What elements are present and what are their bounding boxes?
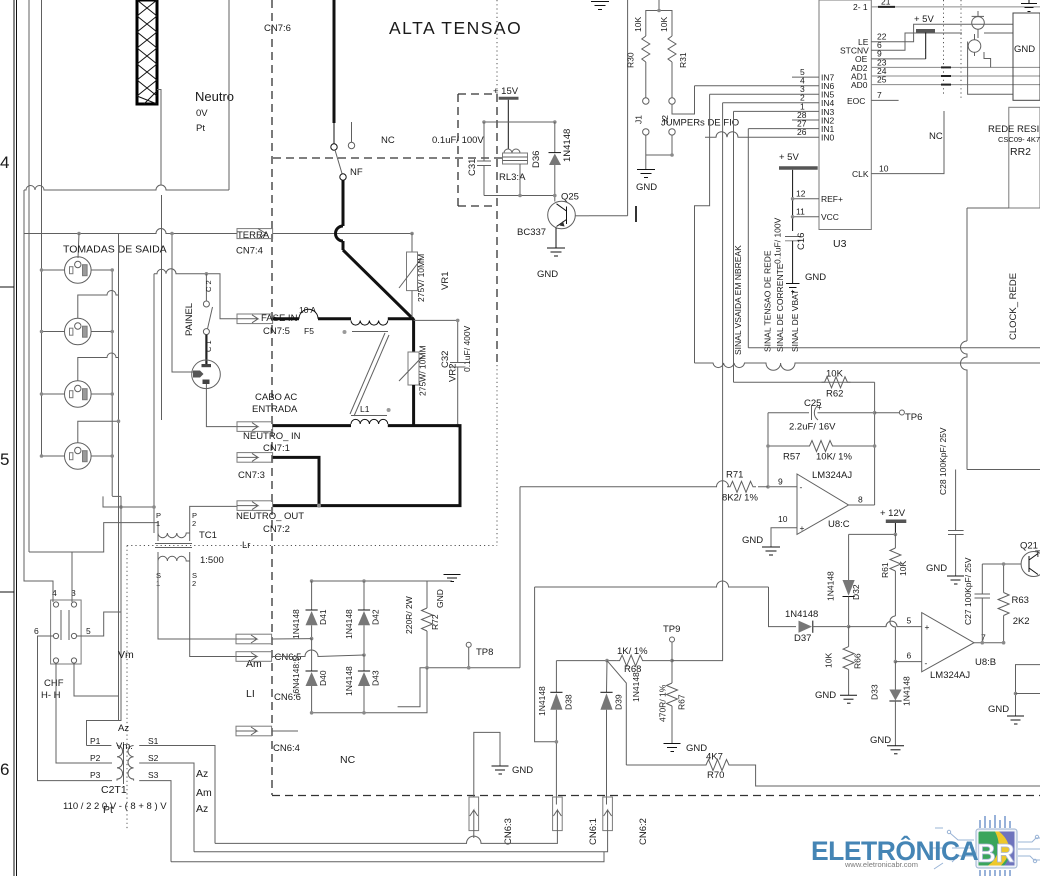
wire y587 corner down to D37: [535, 587, 557, 742]
svg-text:CN6:4: CN6:4: [273, 743, 300, 754]
svg-text:SINAL DE CORRENTE: SINAL DE CORRENTE: [775, 263, 785, 352]
svg-text:10K/ 1%: 10K/ 1%: [816, 452, 852, 463]
svg-text:275V/ 10MM: 275V/ 10MM: [416, 254, 426, 302]
svg-text:C2T1: C2T1: [101, 784, 127, 796]
svg-text:8K2/ 1%: 8K2/ 1%: [722, 493, 758, 504]
wire pin9 input: [768, 486, 797, 488]
svg-text:5: 5: [0, 450, 9, 469]
junction dot pin6: [894, 660, 898, 664]
junction dot relay top right: [553, 120, 557, 124]
svg-text:Pt: Pt: [103, 804, 113, 816]
svg-text:CN7:2: CN7:2: [263, 524, 290, 535]
relay coil bottom wire: [519, 164, 521, 196]
fuse F5: [299, 309, 318, 319]
svg-text:NEUTRO_ IN: NEUTRO_ IN: [243, 431, 301, 442]
wire J2 bottom to gnd: [646, 135, 672, 155]
svg-text:TERRA: TERRA: [237, 230, 270, 241]
relay RL3:A coil: [503, 149, 528, 164]
junction dot thick neutro: [317, 504, 321, 508]
svg-text:1N4148: 1N4148: [291, 609, 301, 639]
svg-text:4: 4: [0, 153, 9, 172]
wire outlet1 right: [91, 269, 112, 271]
svg-text:ALTA TENSAO: ALTA TENSAO: [389, 18, 522, 38]
junction dot D37 out: [847, 625, 851, 629]
L1 phase dot bottom: [387, 408, 391, 412]
svg-text:10K: 10K: [824, 653, 834, 668]
svg-text:7: 7: [877, 90, 882, 100]
wire gnd stem jumpers: [645, 155, 647, 170]
neutro wire vertical x229: [228, 0, 230, 190]
ground U8C pin10: [762, 547, 780, 555]
svg-text:Am: Am: [246, 658, 262, 670]
svg-text:0V: 0V: [196, 108, 208, 119]
resistor R57: [768, 441, 875, 452]
wire Q21 base rail: [982, 563, 1021, 565]
wire mast vertical below hump: [161, 195, 163, 420]
junction dot C32 top: [456, 319, 460, 323]
svg-text:GND: GND: [435, 589, 445, 608]
wire outlet4 left: [42, 455, 65, 457]
connector CN7:4 TERRA box: [237, 229, 273, 239]
svg-text:+ 5V: + 5V: [779, 152, 799, 163]
junction dot R72 bottom: [425, 666, 429, 670]
current transformer TC1 primary: [155, 533, 192, 548]
svg-text:U3: U3: [833, 238, 847, 250]
relay frame wire bottom: [484, 195, 555, 197]
svg-text:21: 21: [881, 0, 891, 7]
svg-text:2.2uF/ 16V: 2.2uF/ 16V: [789, 422, 836, 433]
svg-text:110 / 2 2 0 V - ( 8 + 8 ) V: 110 / 2 2 0 V - ( 8 + 8 ) V: [63, 801, 167, 812]
junction dots bridge bottom: [310, 711, 366, 715]
svg-text:1:500: 1:500: [200, 555, 224, 566]
U3 left pin IN2: [792, 110, 835, 126]
svg-text:R66: R66: [853, 653, 863, 669]
bus wire B y363 with hops: [695, 363, 1040, 370]
svg-text:11: 11: [796, 207, 805, 217]
svg-text:GND: GND: [926, 563, 947, 574]
resistor R67: [667, 661, 678, 744]
ground bridge rail inverted: [444, 575, 461, 582]
resistor R63: [998, 564, 1009, 643]
wire outlet3 left: [42, 393, 65, 395]
svg-text:VR2: VR2: [448, 364, 459, 382]
wire bus x722 bottom hop: [722, 660, 724, 662]
svg-text:10: 10: [778, 514, 788, 524]
junction dot outlet1 ground: [77, 232, 81, 236]
resistor R61: [890, 534, 901, 616]
svg-text:12: 12: [796, 189, 806, 199]
U3 left pin REF+: [793, 189, 843, 205]
resistor R30: [642, 13, 650, 98]
svg-text:220R/ 2W: 220R/ 2W: [404, 596, 414, 634]
junction dot R57 left: [766, 444, 770, 448]
staircase wire x748 from IN1: [747, 129, 749, 348]
diode D36: [549, 122, 562, 202]
wire R62 out corner down: [874, 382, 876, 505]
svg-text:U8:C: U8:C: [828, 519, 850, 530]
junction dot bridge top left: [310, 579, 314, 583]
svg-text:9: 9: [778, 477, 783, 487]
svg-text:+: +: [925, 622, 930, 632]
svg-text:D41: D41: [318, 609, 328, 625]
power +5V bar U3: [779, 152, 818, 168]
svg-text:LM324AJ: LM324AJ: [812, 470, 852, 481]
svg-text:BR: BR: [977, 838, 1015, 868]
svg-text:470R/ 1%: 470R/ 1%: [658, 684, 668, 722]
U3 right pin 23 AD2: [851, 57, 1040, 73]
left bus x41.5: [41, 0, 43, 456]
neutro horizontal wire y190 with crossover humps: [24, 185, 229, 190]
switch PAINEL blade: [203, 307, 212, 335]
svg-text:CABO AC: CABO AC: [255, 392, 297, 403]
svg-text:1N4148: 1N4148: [344, 666, 354, 696]
svg-text:275W/ 10MM: 275W/ 10MM: [418, 345, 428, 396]
svg-text:Lr: Lr: [242, 540, 250, 551]
svg-text:1N4148: 1N4148: [826, 571, 836, 601]
svg-text:6: 6: [0, 760, 9, 779]
wire T1 S1 lead to bottom bus: [139, 746, 215, 844]
wire bus to CHF pin4: [24, 233, 53, 602]
wire Q25 emitter to ground: [555, 228, 557, 249]
U3 right pin 7 EOC: [847, 90, 899, 106]
relay frame wire top: [484, 121, 555, 123]
svg-text:R57: R57: [783, 452, 800, 463]
staircase wire x733 from IN3: [733, 111, 735, 382]
svg-text:NC: NC: [381, 135, 395, 146]
wire CHF pin1 to T1 P2: [56, 663, 112, 763]
junction dot relay top left: [482, 120, 486, 124]
svg-text:CN6:2: CN6:2: [638, 818, 649, 845]
switch NC contact stub: [348, 122, 354, 149]
svg-text:TP8: TP8: [476, 647, 493, 658]
svg-text:-: -: [800, 482, 803, 492]
svg-text:LM324AJ: LM324AJ: [930, 670, 970, 681]
dotted vertical x961 top right: [960, 0, 962, 100]
wire J2 top elbow right: [672, 86, 695, 114]
wire D38 riser: [555, 661, 557, 693]
wire live feed down to T1: [87, 496, 122, 745]
wire y668 left tail: [398, 668, 427, 707]
resistor R70: [703, 760, 732, 771]
wire R70 line: [626, 764, 703, 766]
border tick row 4/5: [0, 286, 14, 288]
ground bottom right: [1007, 716, 1024, 724]
svg-text:PAINEL: PAINEL: [184, 303, 195, 336]
svg-text:GND: GND: [1014, 44, 1035, 55]
svg-text:R70: R70: [707, 770, 724, 781]
wire outlet3 right: [91, 393, 112, 395]
junction dot C32 bottom: [456, 424, 460, 428]
wire CN6:6 to bridge with hop: [272, 650, 364, 657]
svg-text:2: 2: [192, 519, 196, 528]
svg-text:C31: C31: [467, 159, 478, 176]
dashed chassis line through NF switch: [273, 157, 503, 159]
svg-text:GND: GND: [742, 535, 763, 546]
svg-text:D39: D39: [614, 694, 624, 710]
dotted vertical x127 through T1 core: [126, 546, 128, 831]
wire outlet4 right: [91, 455, 112, 457]
connector CN7:1 NEUTRO_IN box: [237, 422, 273, 432]
bottom wire to CN6:1 with hop: [215, 831, 557, 844]
junction dot D36 bottom: [553, 194, 557, 198]
wire outlet3 ground elbow: [78, 353, 119, 381]
ground C16: [786, 284, 800, 292]
U3 left pin IN1: [748, 119, 834, 135]
wire TC1 S2 to CN6:6: [190, 561, 237, 657]
diode D33: [889, 662, 901, 746]
svg-text:6: 6: [907, 651, 912, 661]
U3 left pin VCC: [793, 207, 839, 223]
wire +5V down through REF VCC: [792, 170, 794, 231]
svg-text:D36: D36: [531, 151, 542, 168]
svg-text:D43: D43: [371, 670, 381, 686]
staircase bus x722 from IN4: [722, 103, 724, 661]
svg-text:GND: GND: [988, 704, 1009, 715]
junction dot bridge mid left: [310, 637, 314, 641]
outlet 2: [65, 318, 92, 345]
transistor Q21: [1021, 552, 1040, 577]
thick fase wire connector to fuse: [273, 317, 299, 320]
board boundary dashed vertical CN7/CN6 edge: [271, 0, 273, 795]
svg-text:Az: Az: [196, 803, 208, 815]
resistor R66: [843, 627, 854, 696]
ground top right: [1021, 0, 1037, 12]
svg-text:1N4148: 1N4148: [631, 672, 641, 702]
svg-text:CN7:4: CN7:4: [236, 246, 263, 257]
svg-text:Vm: Vm: [118, 649, 134, 661]
U3 left pin IN0: [705, 127, 835, 143]
junction dot TP9: [670, 659, 674, 663]
twisted pair arcs upper: [968, 11, 984, 56]
svg-text:1N4148: 1N4148: [902, 676, 912, 706]
wire C25 left corner down: [767, 413, 769, 487]
U3 right pin 24 AD1: [851, 66, 1040, 82]
svg-text:D37: D37: [794, 633, 811, 644]
op-amp U8:C: [797, 474, 849, 534]
junction dot coil bottom: [518, 194, 522, 198]
U3 left pin IN6: [695, 76, 835, 92]
svg-text:25: 25: [877, 75, 887, 85]
svg-text:J1: J1: [634, 115, 644, 124]
inductor L1 top winding: [351, 321, 388, 326]
svg-text:NC: NC: [340, 754, 356, 766]
svg-text:NC: NC: [929, 131, 943, 142]
thick neutro wire L1 to corner: [273, 426, 460, 506]
wire R68 out to bus x722: [672, 660, 723, 662]
test point TP6: [899, 410, 904, 415]
svg-text:Q25: Q25: [561, 192, 579, 203]
thick neutro wire connector to L1: [273, 424, 351, 427]
U3 left pin IN7: [792, 67, 835, 83]
transistor Q25: [548, 201, 589, 229]
power +5V pullup bar: [914, 14, 935, 59]
svg-text:26: 26: [797, 127, 807, 137]
svg-text:0.1uF/ 100V: 0.1uF/ 100V: [773, 217, 783, 264]
junction dot jumper gnd: [670, 153, 674, 157]
thick wire VR2 down to neutro: [412, 385, 415, 426]
ground R67: [664, 744, 681, 752]
thick wire to diagonal: [342, 241, 345, 250]
wire U8C output pin8: [849, 504, 875, 506]
ground R66: [840, 695, 857, 703]
wire TC1 S1 to CN6:5: [158, 561, 237, 639]
svg-text:R63: R63: [1012, 595, 1029, 606]
svg-text:SINAL VSAIDA EM NBREAK: SINAL VSAIDA EM NBREAK: [733, 245, 743, 355]
box bottom edge right mid: [967, 469, 1040, 471]
svg-text:C16: C16: [796, 233, 807, 250]
border tick row 5/6: [0, 591, 14, 593]
junction dot TP8: [467, 666, 471, 670]
ground bus x118.5 vertical: [118, 234, 120, 721]
logo chip pins: [980, 815, 1010, 876]
svg-text:D38: D38: [564, 694, 574, 710]
connector box top right: [1013, 13, 1040, 100]
wire Q25 base to bus: [589, 215, 628, 217]
svg-text:10K: 10K: [633, 17, 643, 32]
svg-text:TOMADAS DE SAIDA: TOMADAS DE SAIDA: [63, 243, 167, 255]
junction dot R57 right: [873, 444, 877, 448]
wire CN6:4 stub: [272, 730, 298, 732]
svg-text:R72: R72: [430, 614, 440, 630]
transformer T1: [117, 742, 134, 784]
svg-text:JUMPERs DE FIO: JUMPERs DE FIO: [661, 118, 739, 129]
wire B corner to R62 line: [734, 381, 875, 383]
connector CN7:2 NEUTRO_OUT box: [237, 501, 273, 511]
connector CN7:3 box: [237, 453, 273, 463]
connector CN6:6 box: [236, 652, 272, 662]
svg-text:Neutro: Neutro: [195, 89, 234, 104]
svg-text:R67: R67: [677, 694, 687, 710]
svg-text:S2: S2: [148, 753, 159, 763]
U3 left pin IN3: [734, 101, 835, 117]
svg-text:GND: GND: [686, 743, 707, 754]
svg-text:CN7:6: CN7:6: [264, 23, 291, 34]
wire CHF pin5 elbow: [77, 612, 121, 636]
diode D40: [306, 639, 318, 713]
ground D33: [887, 746, 904, 754]
wire bus to CHF pin3: [29, 523, 158, 552]
junction dot D39 top: [605, 659, 609, 663]
wire outlet2 ground elbow: [78, 291, 119, 319]
svg-text:P1: P1: [90, 736, 101, 746]
wire corner x24 down: [23, 190, 25, 233]
svg-text:CHF: CHF: [44, 678, 64, 689]
svg-text:T: T: [1035, 549, 1040, 560]
junction dot VR1 top: [410, 232, 414, 236]
switch PAINEL contact upper: [203, 274, 209, 307]
diode D43: [358, 655, 370, 713]
thick wire NF to crossover: [342, 180, 345, 226]
wire RR2 to lower box: [966, 208, 968, 341]
ground CN6:3: [492, 766, 509, 774]
svg-text:GND: GND: [815, 690, 836, 701]
svg-text:2- 1: 2- 1: [853, 2, 868, 12]
dotted horizontal y545 Lr line: [127, 545, 497, 547]
svg-text:TP9: TP9: [663, 624, 680, 635]
svg-text:H- H: H- H: [41, 690, 61, 701]
svg-text:10K: 10K: [898, 561, 908, 576]
svg-text:R30: R30: [626, 52, 636, 68]
wire outlet4 ground elbow: [78, 421, 119, 443]
wire pin10 input: [771, 528, 797, 547]
svg-text:P2: P2: [90, 753, 101, 763]
U3 right pin 10 CLK: [852, 111, 944, 179]
diode D41: [306, 581, 318, 639]
svg-text:4K7: 4K7: [706, 752, 723, 763]
ground mast hatched bar: [137, 0, 157, 104]
svg-text:VR1: VR1: [440, 272, 451, 290]
tick mark near bus: [635, 206, 637, 222]
wire to NF contact: [333, 123, 335, 144]
svg-text:REF+: REF+: [821, 194, 843, 204]
svg-text:D33: D33: [870, 684, 880, 700]
current transformer TC1 secondary: [158, 552, 190, 561]
AC plug symbol: [192, 335, 221, 389]
box bottom right corner: [1016, 665, 1040, 716]
capacitor C28: [948, 470, 964, 577]
svg-text:R71: R71: [726, 470, 743, 481]
svg-text:L1: L1: [360, 404, 370, 414]
svg-text:C 2: C 2: [204, 280, 213, 292]
hop arcs on x967 over buses: [961, 341, 967, 470]
outlet 3: [65, 381, 92, 408]
resistor R71: [727, 481, 756, 492]
left bus x29: [28, 0, 30, 552]
svg-text:CSC09- 4K7: CSC09- 4K7: [998, 135, 1040, 144]
switch CHF box: [51, 600, 82, 664]
svg-text:RL3:A: RL3:A: [499, 172, 526, 183]
wire plug to CN7:1: [206, 389, 237, 427]
wire from mast to ground bus: [157, 90, 161, 186]
jumper J1: [643, 98, 649, 135]
bus wire A y347: [748, 347, 1040, 349]
junction dot R63 bottom: [1002, 641, 1006, 645]
thick fase wire fuse to L1: [318, 317, 351, 320]
svg-text:GND: GND: [870, 735, 891, 746]
connector CN6:4 box: [236, 726, 272, 736]
wire outlet1 left: [42, 269, 65, 271]
power +15V bar: [493, 86, 519, 98]
test point TP9: [670, 637, 675, 661]
svg-text:+ 12V: + 12V: [880, 508, 906, 519]
junction dot R30R31: [657, 9, 661, 13]
connector CN6:5 box: [236, 634, 272, 644]
wire T1 S2 lead to bottom bus: [139, 763, 194, 852]
svg-text:6: 6: [34, 626, 39, 636]
svg-text:www.eletronicabr.com: www.eletronicabr.com: [844, 860, 918, 869]
svg-text:REDE RESIS: REDE RESIS: [988, 124, 1040, 135]
wire pin5 with hop over R61: [849, 621, 922, 627]
wire R71 line with hop: [520, 481, 768, 487]
ground below Q25: [547, 248, 565, 256]
svg-text:SINAL DE VBAT: SINAL DE VBAT: [790, 290, 800, 352]
capacitor C32 branch: [414, 320, 466, 425]
svg-text:Pt: Pt: [196, 123, 205, 134]
svg-text:BC337: BC337: [517, 227, 546, 238]
ground C28: [947, 576, 964, 584]
wire J1 bottom to gnd: [645, 135, 647, 155]
junction dot REF: [791, 197, 795, 201]
svg-text:Vm.: Vm.: [116, 741, 133, 752]
connector CN6:1 box vertical: [553, 797, 563, 831]
connector CN6:3 box vertical: [469, 797, 479, 831]
junction dot box left edge: [1014, 692, 1018, 696]
dotted vertical x943 top right: [943, 0, 945, 95]
U3 left pin IN4: [723, 93, 835, 109]
junction dot terra x172: [170, 232, 174, 236]
wire outlet1 ground pin riser: [78, 234, 79, 259]
svg-text:1N4148: 1N4148: [785, 609, 818, 620]
